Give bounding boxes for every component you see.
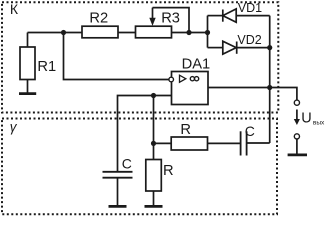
- node DA1 pin2: [151, 93, 156, 98]
- wire VD1 left: [208, 15, 223, 17]
- node output rail: [267, 85, 272, 90]
- wire cap branch: [118, 96, 154, 172]
- block K dashed border: [2, 2, 278, 112]
- svg-text:VD2: VD2: [237, 33, 261, 47]
- wire VD1 right: [236, 15, 270, 17]
- svg-text:R1: R1: [37, 59, 56, 75]
- wire to R horizontal: [154, 142, 172, 144]
- svg-text:DA1: DA1: [182, 57, 211, 73]
- diode VD2: [223, 41, 237, 54]
- arrow Uvyx: [294, 110, 300, 126]
- resistor R horizontal: [171, 137, 207, 150]
- wire R3 right: [172, 32, 208, 34]
- node main junction left: [61, 30, 66, 35]
- terminal output bottom: [294, 134, 299, 139]
- wire feedback vertical: [153, 96, 155, 144]
- svg-text:U: U: [301, 111, 311, 127]
- op-amp DA1 triangle symbol: [180, 75, 186, 82]
- terminal output top: [294, 100, 299, 105]
- wire R1 bottom: [27, 80, 29, 93]
- wire C1 bottom: [117, 179, 119, 206]
- block gamma dashed border: [2, 119, 277, 215]
- svg-text:R: R: [180, 122, 191, 138]
- wire R-C series: [208, 142, 241, 144]
- svg-text:C: C: [122, 155, 132, 171]
- node R3 wiper junction: [186, 30, 191, 35]
- node diode rail junction: [205, 30, 210, 35]
- node VD2 rail: [267, 45, 272, 50]
- wire DA1 pin2: [154, 95, 172, 97]
- resistor R2: [82, 26, 118, 38]
- wire R vertical top: [153, 143, 155, 159]
- capacitor C2: [241, 131, 247, 155]
- wire R2-R3: [118, 32, 136, 34]
- op-amp DA1 inverting input circle: [169, 77, 174, 82]
- ground R vertical: [145, 205, 163, 208]
- svg-text:К: К: [10, 1, 19, 17]
- wire R3 wiper arrow stem: [152, 8, 154, 19]
- wire VD2 right: [237, 47, 270, 49]
- wire DA1 output: [208, 87, 270, 89]
- svg-text:R3: R3: [161, 10, 180, 26]
- resistor R3: [136, 26, 172, 38]
- wire top main: [28, 32, 83, 34]
- svg-text:VD1: VD1: [238, 1, 262, 15]
- wire R1 riser: [27, 33, 29, 48]
- op-amp DA1 infinity symbol: [190, 77, 198, 81]
- svg-text:вых: вых: [313, 120, 325, 127]
- capacitor C1: [103, 172, 133, 178]
- ground R1: [19, 92, 36, 95]
- wire C2 right: [248, 142, 270, 144]
- wire right rail: [269, 16, 271, 143]
- svg-text:R: R: [163, 163, 174, 179]
- wire VD2 left: [208, 47, 223, 49]
- resistor R vertical: [146, 160, 162, 192]
- wire terminal ground: [296, 139, 298, 154]
- ground C1: [109, 205, 127, 208]
- diode VD1: [223, 9, 236, 22]
- op-amp DA1 body: [172, 72, 209, 105]
- resistor R1: [20, 47, 35, 80]
- wire R vertical bottom: [153, 191, 155, 205]
- node RC junction: [151, 141, 156, 146]
- wire R3 wiper top: [153, 8, 190, 33]
- wire diode left rail: [207, 16, 209, 48]
- svg-text:C: C: [245, 123, 255, 139]
- wire inverting input: [64, 33, 169, 80]
- ground output: [288, 153, 307, 156]
- arrowhead R3 wiper: [149, 18, 155, 26]
- wire output tap: [270, 88, 297, 101]
- svg-text:R2: R2: [89, 11, 108, 27]
